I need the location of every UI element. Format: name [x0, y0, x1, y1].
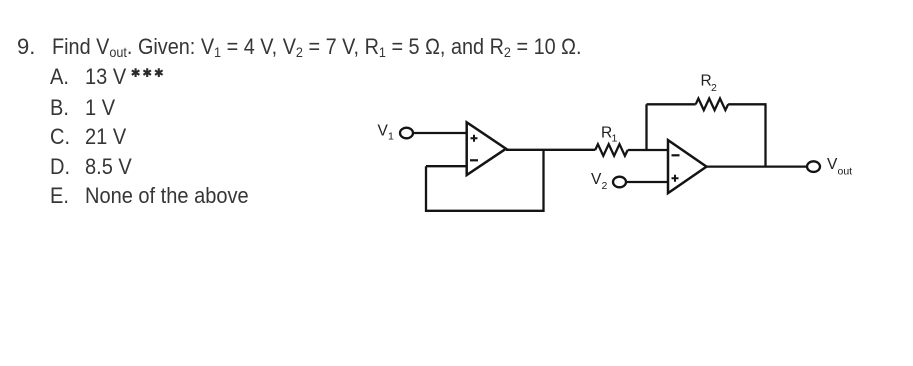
- wire R1 to U2 inverting input: [628, 149, 668, 151]
- node Vout terminal: [807, 161, 820, 172]
- op-amp U2: [668, 140, 707, 193]
- resistor R2: [696, 99, 729, 111]
- svg-text:out: out: [838, 166, 853, 178]
- wire U1 inverting input: [426, 165, 467, 167]
- wire R2 feedback top right: [728, 104, 765, 166]
- wire U2 output to Vout: [707, 165, 808, 167]
- label R1: [601, 125, 618, 145]
- svg-text:1: 1: [612, 133, 618, 145]
- wire V2 to U2 noninverting input: [626, 181, 668, 183]
- svg-text:V: V: [827, 156, 838, 173]
- option D: [50, 156, 70, 178]
- label V1: [378, 123, 395, 143]
- label V2: [591, 171, 608, 192]
- svg-text:V: V: [591, 171, 602, 188]
- svg-text:2: 2: [602, 180, 608, 192]
- answer marker ***: [132, 68, 163, 77]
- label Vout: [827, 156, 852, 178]
- op-amp U1: [467, 122, 506, 175]
- node V1 terminal: [400, 128, 413, 139]
- svg-text:1: 1: [388, 131, 394, 143]
- resistor R1: [595, 144, 628, 156]
- question number and text: [17, 36, 35, 58]
- node V2 terminal: [613, 177, 626, 188]
- option A: [50, 66, 69, 88]
- wire U1 feedback loop: [426, 150, 544, 211]
- option B: [50, 97, 69, 119]
- svg-text:2: 2: [711, 82, 717, 94]
- wire R2 feedback top left: [647, 103, 696, 105]
- option C: [50, 126, 70, 148]
- wire V1 to U1 noninverting input: [413, 132, 467, 134]
- svg-text:V: V: [378, 123, 389, 140]
- node inverting input junction: [645, 104, 647, 150]
- wire U1 output to R1: [506, 149, 595, 151]
- label R2: [701, 72, 718, 94]
- option E: [50, 185, 69, 207]
